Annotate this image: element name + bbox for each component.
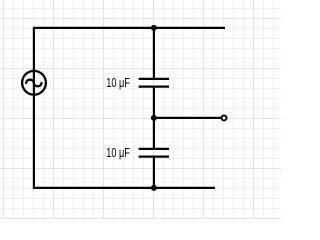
AC source V1 bbox=[22, 71, 46, 95]
capacitor C1 bbox=[139, 79, 169, 87]
terminal output bbox=[222, 115, 227, 120]
node junction top bbox=[151, 25, 157, 31]
wire bottom rail bbox=[33, 187, 215, 189]
wire left rail bbox=[33, 28, 35, 188]
node junction mid bbox=[151, 115, 157, 121]
wire top node to C1 bbox=[153, 28, 155, 79]
wire C1 to C2 bbox=[153, 87, 155, 149]
svg-text:10 μF: 10 μF bbox=[106, 145, 130, 160]
wire mid node to output terminal bbox=[154, 117, 221, 119]
capacitor C2 bbox=[139, 149, 169, 157]
wire top rail bbox=[33, 27, 225, 29]
svg-text:10 μF: 10 μF bbox=[106, 75, 130, 90]
wire C2 to bottom rail bbox=[153, 157, 155, 188]
node junction bottom bbox=[151, 185, 157, 191]
